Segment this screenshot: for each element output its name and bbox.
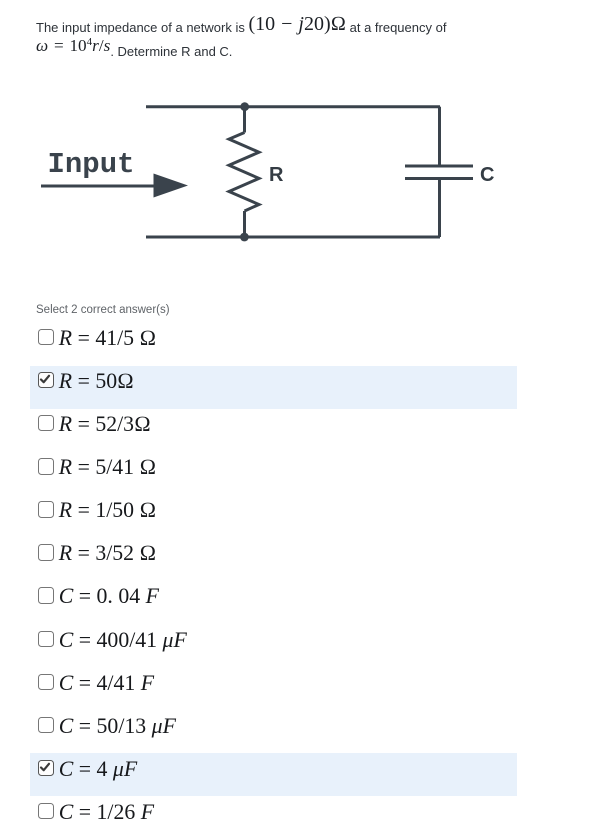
answer options bbox=[30, 323, 517, 839]
svg-text:R: R bbox=[269, 164, 284, 186]
wire: bottom rail bbox=[146, 236, 440, 239]
wire: resistor top lead bbox=[243, 107, 246, 133]
node: top junction dot bbox=[240, 102, 249, 111]
circuit schematic bbox=[0, 0, 599, 280]
wire: resistor bottom lead bbox=[243, 211, 246, 237]
question title bbox=[36, 16, 506, 65]
wire: right branch lower segment bbox=[438, 179, 441, 238]
wire: top rail bbox=[146, 105, 440, 108]
svg-text:Input: Input bbox=[48, 148, 135, 181]
node: bottom junction dot bbox=[240, 233, 249, 242]
capacitor C plates bbox=[405, 166, 473, 179]
select instruction bbox=[36, 304, 170, 316]
wire: right branch upper segment bbox=[438, 107, 441, 166]
svg-text:C: C bbox=[480, 164, 494, 186]
resistor R zigzag bbox=[229, 133, 259, 212]
input arrowhead bbox=[154, 174, 189, 198]
input arrow shaft bbox=[41, 185, 160, 188]
